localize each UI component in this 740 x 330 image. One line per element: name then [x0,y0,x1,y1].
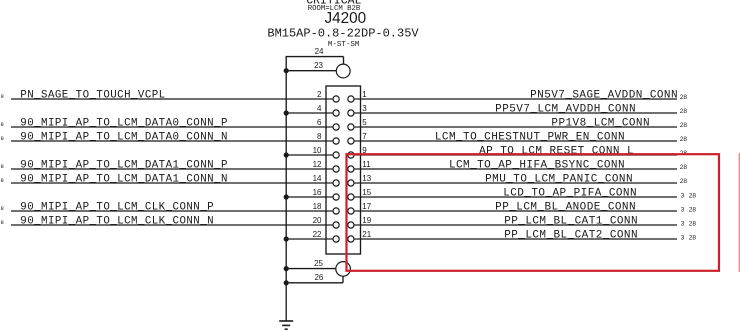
svg-text:PP_LCM_BL_CAT2_CONN: PP_LCM_BL_CAT2_CONN [504,229,638,241]
pin 16 stub [326,196,333,198]
svg-text:90_MIPI_AP_TO_LCM_DATA1_CONN_P: 90_MIPI_AP_TO_LCM_DATA1_CONN_P [20,159,228,171]
junction pin 25 [284,266,289,271]
junction pin 23 [284,68,289,73]
svg-text:28: 28 [689,235,697,242]
svg-text:28: 28 [680,94,688,101]
pin 19 stub [354,224,361,226]
svg-text:15: 15 [362,188,371,197]
svg-text:90_MIPI_AP_TO_LCM_DATA0_CONN_P: 90_MIPI_AP_TO_LCM_DATA0_CONN_P [20,117,228,129]
pin 4 stub [326,112,333,114]
wire pin 16 (gnd) [286,196,326,198]
wire pin 4 (gnd) [286,112,326,114]
svg-text:28: 28 [680,164,688,171]
pin 7 stub [354,140,361,142]
ground [279,321,293,329]
svg-text:3: 3 [362,104,367,113]
svg-text:19: 19 [362,216,371,225]
wire pin 5 [361,126,678,128]
junction pin 4 [284,110,289,115]
svg-text:28: 28 [680,122,688,129]
svg-text:28: 28 [689,207,697,214]
svg-text:AP_TO_LCM_RESET_CONN_L: AP_TO_LCM_RESET_CONN_L [479,145,634,157]
svg-text:3: 3 [681,193,685,200]
pin 22 circle [333,236,339,242]
svg-text:23: 23 [314,61,323,70]
svg-text:21: 21 [362,230,371,239]
wire pin 13 [361,182,678,184]
svg-text:90_MIPI_AP_TO_LCM_CLK_CONN_N: 90_MIPI_AP_TO_LCM_CLK_CONN_N [20,215,214,227]
svg-text:90_MIPI_AP_TO_LCM_DATA1_CONN_N: 90_MIPI_AP_TO_LCM_DATA1_CONN_N [20,173,228,185]
pin 20 circle [333,222,339,228]
svg-text:4: 4 [317,104,322,113]
svg-text:13: 13 [362,174,371,183]
pin 10 stub [326,154,333,156]
svg-text:M-ST-SM: M-ST-SM [328,41,360,49]
pin 21 circle [348,236,354,242]
pin 25/26 shell circle [336,262,351,277]
svg-text:8: 8 [1,219,4,226]
wire pin 24 [286,57,344,65]
pin 14 circle [333,180,339,186]
svg-text:PP_LCM_BL_CAT1_CONN: PP_LCM_BL_CAT1_CONN [504,215,638,227]
wire pin 21 [361,238,678,240]
junction pin 10 [284,152,289,157]
connector J4200 body [326,86,361,254]
svg-text:22: 22 [313,230,322,239]
pin 13 circle [348,180,354,186]
pin 15 circle [348,194,354,200]
pin 22 stub [326,238,333,240]
pin 7 circle [348,138,354,144]
svg-text:11: 11 [362,160,371,169]
svg-text:LCM_TO_CHESTNUT_PWR_EN_CONN: LCM_TO_CHESTNUT_PWR_EN_CONN [435,131,625,143]
pin 6 stub [326,126,333,128]
wire pin 12 [11,168,326,170]
svg-text:BM15AP-0.8-22DP-0.35V: BM15AP-0.8-22DP-0.35V [267,27,419,41]
svg-text:LCM_TO_AP_HIFA_BSYNC_CONN: LCM_TO_AP_HIFA_BSYNC_CONN [449,159,625,171]
svg-text:PMU_TO_LCM_PANIC_CONN: PMU_TO_LCM_PANIC_CONN [485,173,633,185]
wire pin 6 [11,126,326,128]
svg-text:20: 20 [313,216,322,225]
svg-text:12: 12 [313,160,322,169]
wire pin 15 [361,196,678,198]
wire pin 23 [286,70,336,72]
wire pin 10 (gnd) [286,154,326,156]
wire pin 1 [361,98,678,100]
svg-text:28: 28 [689,221,697,228]
svg-text:9: 9 [1,93,4,100]
svg-text:16: 16 [313,188,322,197]
svg-text:J4200: J4200 [324,10,366,27]
svg-text:PN5V7_SAGE_AVDDN_CONN: PN5V7_SAGE_AVDDN_CONN [530,89,678,101]
svg-text:17: 17 [362,202,371,211]
pin 18 circle [333,208,339,214]
red highlight box [347,154,720,271]
wire pin 3 [361,112,678,114]
junction pin 16 [284,194,289,199]
svg-text:PP5V7_LCM_AVDDH_CONN: PP5V7_LCM_AVDDH_CONN [495,103,636,115]
pin 11 circle [348,166,354,172]
svg-text:3: 3 [681,221,685,228]
svg-text:25: 25 [314,259,323,268]
pin 17 stub [354,210,361,212]
wire pin 17 [361,210,678,212]
wire pin 2 [11,98,326,100]
svg-text:PP1V8_LCM_CONN: PP1V8_LCM_CONN [551,117,650,129]
pin 12 stub [326,168,333,170]
svg-text:26: 26 [314,273,323,282]
svg-text:2: 2 [317,90,322,99]
wire pin 9 [361,154,678,156]
svg-text:8: 8 [1,205,4,212]
svg-text:14: 14 [313,174,322,183]
pin 4 circle [333,110,339,116]
svg-text:90_MIPI_AP_TO_LCM_CLK_CONN_P: 90_MIPI_AP_TO_LCM_CLK_CONN_P [20,201,214,213]
pin 2 circle [333,96,339,102]
svg-text:28: 28 [680,136,688,143]
wire pin 14 [11,182,326,184]
wire pin 19 [361,224,678,226]
pin 3 circle [348,110,354,116]
svg-text:10: 10 [313,146,322,155]
svg-text:LCD_TO_AP_PIFA_CONN: LCD_TO_AP_PIFA_CONN [503,187,637,199]
wire pin 25 [286,268,336,270]
red highlight box 2 (cut off at right edge) [738,153,740,272]
pin 20 stub [326,224,333,226]
svg-text:90_MIPI_AP_TO_LCM_DATA0_CONN_N: 90_MIPI_AP_TO_LCM_DATA0_CONN_N [20,131,228,143]
svg-text:1: 1 [362,90,367,99]
wire pin 7 [361,140,678,142]
pin 13 stub [354,182,361,184]
pin 19 circle [348,222,354,228]
svg-text:8: 8 [317,132,322,141]
wire pin 11 [361,168,678,170]
pin 9 stub [354,154,361,156]
wire pin 8 [11,140,326,142]
pin 11 stub [354,168,361,170]
svg-text:PN_SAGE_TO_TOUCH_VCPL: PN_SAGE_TO_TOUCH_VCPL [20,89,165,101]
wire pin 26 [286,276,343,283]
junction pin 22 [284,236,289,241]
pin 9 circle [348,152,354,158]
pin 1 circle [348,96,354,102]
wire pin 18 [11,210,326,212]
svg-text:28: 28 [680,108,688,115]
pin 10 circle [333,152,339,158]
svg-text:28: 28 [680,178,688,185]
pin 8 stub [326,140,333,142]
pin 14 stub [326,182,333,184]
pin 6 circle [333,124,339,130]
pin 5 stub [354,126,361,128]
pin 2 stub [326,98,333,100]
svg-text:8: 8 [1,121,4,128]
svg-text:6: 6 [317,118,322,127]
svg-text:7: 7 [362,132,367,141]
pin 8 circle [333,138,339,144]
svg-text:8: 8 [1,135,4,142]
pin 18 stub [326,210,333,212]
pin 21 stub [354,238,361,240]
svg-text:5: 5 [362,118,367,127]
svg-text:3: 3 [681,207,685,214]
pin 17 circle [348,208,354,214]
svg-text:3: 3 [681,235,685,242]
svg-text:24: 24 [315,47,324,56]
wire pin 22 (gnd) [286,238,326,240]
pin 16 circle [333,194,339,200]
pin 5 circle [348,124,354,130]
junction pin 26 [284,280,289,285]
svg-text:8: 8 [1,177,4,184]
pin 1 stub [354,98,361,100]
pin 15 stub [354,196,361,198]
svg-text:28: 28 [689,193,697,200]
svg-text:18: 18 [313,202,322,211]
pin 12 circle [333,166,339,172]
GND bus wire [285,57,287,321]
wire pin 20 [11,224,326,226]
pin 3 stub [354,112,361,114]
svg-text:PP_LCM_BL_ANODE_CONN: PP_LCM_BL_ANODE_CONN [495,201,636,213]
svg-text:8: 8 [1,163,4,170]
pin 23/24 shell circle [336,64,350,78]
